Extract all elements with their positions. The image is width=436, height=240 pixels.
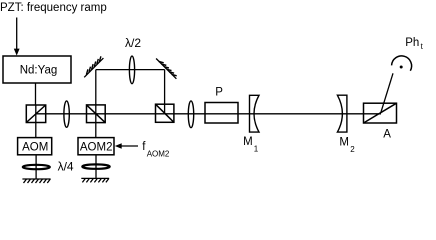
svg-text:f: f <box>142 141 146 153</box>
wire BS2 to AOM2 <box>95 105 97 138</box>
lens L2 <box>188 101 193 128</box>
svg-text:t: t <box>421 42 424 51</box>
mirror under AOM2 <box>81 178 109 182</box>
AOM box <box>18 138 52 155</box>
lens below AOM <box>23 165 50 169</box>
analyzer cube A <box>364 103 397 123</box>
top beam FM1 to FM2 <box>96 69 165 71</box>
svg-text:AOM: AOM <box>22 141 48 153</box>
label Ph t <box>405 37 423 51</box>
wire FM2 down to BS3 <box>164 70 166 115</box>
fold mirror FM1 <box>84 56 103 77</box>
wire AOM to mirror <box>35 155 37 179</box>
arrow f AOM2 <box>115 143 138 148</box>
wire BS2 up to fold mirror FM1 <box>95 70 97 105</box>
mirror under AOM <box>22 179 50 183</box>
svg-text:λ/4: λ/4 <box>58 160 74 174</box>
wire BS1 to AOM <box>35 123 37 138</box>
beamsplitter BS1 <box>26 105 45 123</box>
svg-text:M: M <box>243 136 253 148</box>
fold mirror FM2 <box>156 59 177 79</box>
beamsplitter BS3 <box>156 104 174 122</box>
label M2 <box>339 137 355 155</box>
main beam <box>36 113 381 115</box>
svg-text:2: 2 <box>350 145 355 154</box>
svg-text:Ph: Ph <box>405 37 419 49</box>
AOM2 box <box>78 138 114 155</box>
label M1 <box>243 136 259 153</box>
wire AOM2 to mirror <box>95 155 97 179</box>
lens L1 <box>64 101 69 127</box>
svg-text:PZT: frequency ramp: PZT: frequency ramp <box>0 2 107 14</box>
laser Nd:Yag <box>3 56 71 83</box>
label f AOM2 <box>142 141 170 159</box>
polarizer P <box>205 103 238 124</box>
svg-text:AOM2: AOM2 <box>147 150 170 159</box>
lens below AOM2 <box>82 164 109 168</box>
photodetector Pht <box>392 56 412 71</box>
cavity mirror M1 <box>250 95 260 132</box>
svg-text:A: A <box>383 129 391 141</box>
svg-text:AOM2: AOM2 <box>80 141 113 153</box>
wire PZT arrow to laser <box>14 18 20 56</box>
svg-text:P: P <box>215 86 223 98</box>
svg-text:1: 1 <box>254 144 259 153</box>
svg-text:M: M <box>339 137 349 149</box>
svg-text:Nd:Yag: Nd:Yag <box>20 64 58 76</box>
wire A to detector <box>381 73 393 113</box>
wire laser to BS1 <box>35 83 37 105</box>
svg-text:λ/2: λ/2 <box>125 36 141 50</box>
waveplate lambda/2 <box>129 56 134 84</box>
beamsplitter BS2 <box>87 105 106 123</box>
cavity mirror M2 <box>337 95 347 132</box>
